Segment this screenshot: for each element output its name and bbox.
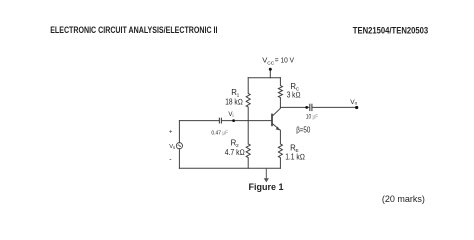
wire input line left segment <box>179 120 218 122</box>
wire collector output line <box>280 106 309 108</box>
svg-text:ELECTRONIC CIRCUIT ANALYSIS/EL: ELECTRONIC CIRCUIT ANALYSIS/ELECTRONIC I… <box>50 25 217 35</box>
node Vcc dot <box>269 68 272 71</box>
svg-text:TEN21504/TEN20503: TEN21504/TEN20503 <box>353 26 428 36</box>
svg-text:(20 marks): (20 marks) <box>382 194 425 204</box>
transistor Q1 <box>272 108 280 130</box>
svg-text:1.1 kΩ: 1.1 kΩ <box>285 153 305 162</box>
label Vs <box>169 144 175 150</box>
resistor R1 <box>246 78 250 121</box>
node Vi dot <box>232 119 235 122</box>
node Vo dot <box>355 106 358 109</box>
resistor RE <box>278 130 282 168</box>
svg-text:18 kΩ: 18 kΩ <box>225 98 243 107</box>
svg-text:3 kΩ: 3 kΩ <box>287 91 301 100</box>
capacitor C1 0.47uF plates <box>219 118 221 124</box>
wire left source branch lower <box>178 149 180 169</box>
transistor Q1 emitter arrow <box>276 127 280 131</box>
resistor RC <box>278 78 282 108</box>
wire left source branch upper <box>178 121 180 143</box>
label R2 <box>231 138 239 148</box>
wire top rail <box>248 77 280 79</box>
capacitor C2 10uF plates <box>310 104 312 111</box>
svg-text:= 10 V: = 10 V <box>275 56 295 65</box>
svg-text:0.47 μF: 0.47 μF <box>211 131 228 137</box>
svg-text:s: s <box>173 145 175 150</box>
wire input line right segment <box>222 120 271 122</box>
label Vcc = 10 V <box>262 56 295 67</box>
label R1 <box>231 88 239 98</box>
svg-text:10 μF: 10 μF <box>306 113 318 120</box>
wire output line after capacitor <box>313 106 357 108</box>
svg-text:-: - <box>169 157 172 164</box>
ground arrow <box>264 168 269 182</box>
svg-text:i: i <box>233 113 234 118</box>
source VS circle <box>176 143 182 149</box>
svg-text:β=50: β=50 <box>296 125 311 134</box>
svg-text:4.7 kΩ: 4.7 kΩ <box>225 148 245 157</box>
wire Vcc stub <box>269 70 271 78</box>
label RE <box>290 144 299 154</box>
svg-text:o: o <box>355 101 358 106</box>
node collector junction dot <box>305 106 308 109</box>
svg-text:+: + <box>169 129 173 135</box>
label Vo <box>350 99 357 106</box>
label RC <box>290 82 299 92</box>
wire bottom rail <box>179 167 280 169</box>
label Vi <box>228 111 233 118</box>
resistor R2 <box>246 121 250 169</box>
svg-text:Figure 1: Figure 1 <box>249 182 284 192</box>
svg-text:CC: CC <box>267 61 274 67</box>
